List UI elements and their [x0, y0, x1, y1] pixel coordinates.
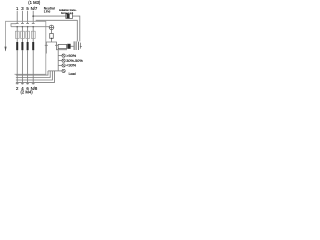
leader 2 — [58, 60, 62, 62]
LED 3 — [62, 64, 65, 67]
load sense wire b — [16, 71, 50, 78]
svg-text:Line: Line — [44, 9, 51, 13]
LED 2 — [62, 59, 65, 62]
svg-text:>50%: >50% — [66, 54, 76, 58]
connector bars — [74, 41, 79, 50]
LED 4 — [62, 69, 65, 72]
leader 1 — [58, 55, 62, 57]
pole 3 contact — [27, 27, 29, 42]
coil box — [50, 34, 54, 39]
terminal ticks bottom — [16, 83, 35, 85]
pole 1 contact — [16, 27, 18, 42]
wire line sense — [36, 20, 78, 41]
relay staple — [46, 42, 67, 54]
wire L1 lower — [16, 50, 18, 84]
linkage stub — [11, 24, 16, 27]
wire neutral sense — [33, 15, 66, 17]
supply transformer — [66, 14, 73, 19]
svg-text:N/7: N/7 — [31, 6, 38, 11]
pole interrupter bar 2 — [21, 42, 23, 50]
junction N sense — [32, 15, 34, 17]
wire L3 top — [27, 11, 29, 23]
module wire right — [71, 45, 74, 47]
svg-text:Load: Load — [69, 72, 76, 76]
load sense wire a — [16, 71, 48, 75]
module dark block — [67, 44, 70, 49]
svg-text:former 1:1: former 1:1 — [61, 11, 74, 15]
coil circle — [49, 25, 54, 30]
module box — [58, 44, 66, 48]
linkage dots — [16, 26, 18, 28]
svg-text:<30%: <30% — [66, 64, 76, 68]
staple tick left — [45, 44, 48, 46]
wire N lower — [32, 50, 34, 84]
leader 4 — [58, 70, 62, 72]
pole interrupter bar 1 — [16, 42, 18, 50]
svg-text:(1 M3): (1 M3) — [28, 0, 41, 5]
pole interrupter bar 4 — [32, 42, 34, 50]
pole interrupter bar 3 — [27, 42, 29, 50]
staple tick right — [55, 44, 58, 46]
lever arrow — [5, 47, 7, 52]
load sense wire c — [16, 71, 53, 80]
pole 2 contact — [21, 27, 23, 42]
wire transformer to corner — [73, 16, 80, 41]
wire L3 lower — [27, 50, 29, 84]
wire L1 top — [16, 11, 18, 23]
background — [0, 0, 100, 100]
wire L2 top — [21, 11, 23, 23]
connector tick — [80, 43, 82, 49]
linkage bar — [11, 26, 49, 28]
svg-text:(2 M4): (2 M4) — [21, 90, 34, 95]
leader 3 — [58, 64, 62, 66]
pole 4 contact — [32, 27, 34, 42]
svg-text:30%-50%: 30%-50% — [66, 59, 83, 63]
wire L2 lower — [21, 50, 23, 84]
load sense bus — [48, 70, 58, 72]
terminal ticks top — [16, 22, 35, 24]
wire N top — [32, 11, 34, 23]
LED bus — [57, 49, 59, 71]
load sense wire d — [16, 71, 55, 83]
enclosure box — [6, 21, 46, 74]
LED 1 — [62, 54, 65, 57]
coil stub — [51, 30, 53, 42]
